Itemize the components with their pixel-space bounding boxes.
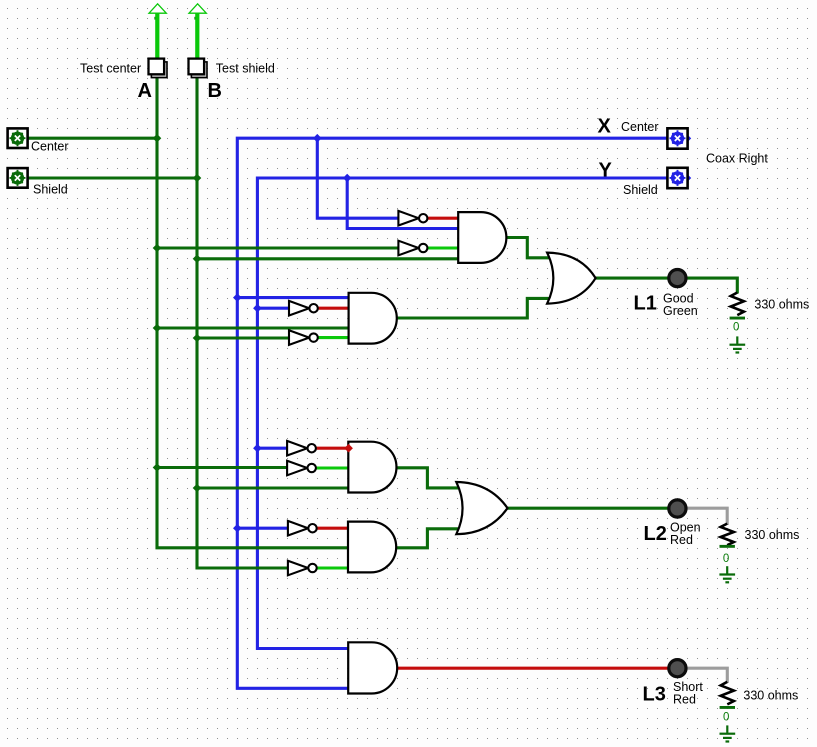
svg-text:L2: L2: [644, 523, 667, 545]
svg-text:Center: Center: [31, 140, 69, 154]
wire B to AND1 pin4 y=258.8: [197, 257, 458, 260]
wire red NOT1a output: [427, 217, 458, 220]
svg-text:0: 0: [723, 712, 729, 724]
node A y328 junction: [153, 324, 162, 333]
wire gray LED L3 to resistor R3: [687, 668, 727, 683]
wire blue branch x=347 from Y to AND1 pin2: [347, 178, 458, 229]
wire bright green NOT4b output: [317, 566, 348, 569]
wire bright green NOT3b output: [316, 466, 349, 469]
AND gate U2 (L1): [349, 293, 397, 344]
svg-text:330 ohms: 330 ohms: [754, 298, 809, 312]
svg-text:0: 0: [733, 321, 739, 333]
svg-text:Shield: Shield: [623, 183, 658, 197]
wire Center input to A-bus: [28, 137, 158, 140]
wire blue branch x=317 from X to NOT1a input: [317, 138, 398, 218]
node bus1 y297.6 junction: [233, 293, 242, 302]
svg-text:Test shield: Test shield: [216, 61, 275, 75]
input terminal Shield: [8, 168, 28, 188]
inverter NOT1b: [398, 241, 427, 256]
wire B to NOT2b input y=338: [197, 336, 289, 339]
inverter NOT4b: [288, 561, 317, 576]
wire gray LED L2 to resistor R2: [687, 508, 727, 525]
svg-text:Coax Right: Coax Right: [706, 152, 768, 166]
inverter NOT2b: [289, 330, 318, 345]
node bus2 y308.2 junction: [253, 304, 262, 313]
send-out arrow A: [149, 4, 166, 58]
wire Shield input to B-bus: [28, 176, 198, 179]
node B y488 junction: [193, 484, 202, 493]
resistor R1 330 ohms: [730, 293, 745, 320]
node red junction at AND3 pin1: [344, 444, 353, 453]
AND gate U1 (L1): [458, 212, 506, 263]
wire Y coax-shield blue: terminal Y left, down bus2 x=257, to AND5 pin1: [257, 178, 667, 649]
wire B-bus: switch B down x=197, corner to NOT4b input: [197, 76, 288, 568]
svg-text:Center: Center: [621, 120, 659, 134]
ground G1: [730, 336, 746, 352]
resistor R2 330 ohms: [720, 524, 735, 548]
LED L1: [669, 270, 686, 287]
svg-text:A: A: [138, 80, 152, 102]
svg-text:Red: Red: [673, 693, 696, 707]
node A y248 junction: [153, 244, 162, 253]
svg-text:330 ohms: 330 ohms: [743, 688, 798, 702]
switch A (Test center): [149, 59, 168, 78]
wire A-bus: switch A down x=157, corner to AND4 pin2: [157, 76, 348, 548]
wire red NOT3a output: [316, 447, 349, 450]
svg-text:B: B: [208, 80, 222, 102]
wire A to NOT1b input y=248: [157, 246, 399, 249]
node X branch junction x=317: [313, 134, 322, 143]
node B y338 junction: [193, 334, 202, 343]
AND gate U7 (L3): [348, 642, 397, 693]
AND gate U4 (L2): [348, 442, 396, 493]
node A-Center junction: [153, 134, 162, 143]
wire AND1 output to OR1 input 1: [506, 238, 551, 258]
wire A to NOT3b input y=467.5: [157, 466, 287, 469]
LED L3: [669, 660, 686, 677]
svg-text:Test center: Test center: [80, 61, 141, 75]
wire blue bus1 to NOT4a input: [237, 527, 288, 530]
svg-text:330 ohms: 330 ohms: [745, 528, 800, 542]
wire blue bus1 to AND2 pin1: [237, 296, 348, 299]
wire red NOT2a output: [318, 307, 349, 310]
wire OR2 output to LED L2: [507, 507, 668, 510]
node Y branch junction x=347: [343, 174, 352, 183]
wire blue bus2 to NOT2a input: [257, 307, 289, 310]
ground G2: [719, 566, 735, 582]
wire bright green NOT2b output: [318, 336, 349, 339]
wire A to AND2 pin3 y=328: [157, 326, 349, 329]
svg-text:Red: Red: [670, 533, 693, 547]
send-out arrow B: [189, 4, 206, 58]
wire AND2 output to OR1 input 2: [397, 298, 551, 318]
input terminal Center: [8, 128, 28, 148]
inverter NOT4a: [288, 521, 317, 536]
node bus2 y448.2 junction: [253, 444, 262, 453]
svg-text:Shield: Shield: [33, 182, 68, 196]
switch B (Test shield): [189, 59, 208, 78]
svg-text:L1: L1: [634, 293, 657, 315]
svg-text:Green: Green: [663, 304, 698, 318]
inverter NOT1a: [398, 211, 427, 226]
ground G3: [720, 725, 736, 741]
wire OR1 output to LED L1: [595, 277, 668, 280]
wire blue bus2 to NOT3a input: [257, 447, 287, 450]
output terminal Y (coax right shield): [667, 168, 691, 188]
node A y467.5 junction: [153, 463, 162, 472]
wire AND4 output to OR2 input 2: [397, 529, 460, 548]
svg-text:0: 0: [723, 553, 729, 565]
wire bright green NOT1b output: [427, 246, 458, 249]
wire X coax-center blue: terminal X left, down bus1 x=237, to AND5 pin2: [237, 138, 667, 688]
wire red AND5 output to LED L3: [396, 667, 668, 670]
node B-Shield junction: [193, 174, 202, 183]
LED L2: [669, 500, 686, 517]
OR gate U3 (L1): [547, 253, 596, 304]
AND gate U5 (L2): [348, 522, 396, 573]
node bus1 y528.2 junction: [233, 524, 242, 533]
resistor R3 330 ohms: [720, 682, 735, 709]
node B y258.8 junction: [193, 255, 202, 264]
inverter NOT3a: [287, 441, 316, 456]
OR gate U6 (L2): [456, 482, 507, 534]
wire B to AND3 pin3 y=488: [197, 486, 348, 489]
svg-text:Y: Y: [599, 160, 613, 182]
inverter NOT2a: [289, 301, 318, 316]
svg-text:X: X: [598, 116, 612, 138]
wire LED L1 to resistor R1: [687, 278, 737, 293]
wire red NOT4a output: [317, 527, 348, 530]
inverter NOT3b: [287, 461, 316, 476]
svg-text:L3: L3: [643, 683, 666, 705]
output terminal X (coax right center): [667, 128, 691, 148]
wire AND3 output to OR2 input 1: [397, 468, 460, 488]
